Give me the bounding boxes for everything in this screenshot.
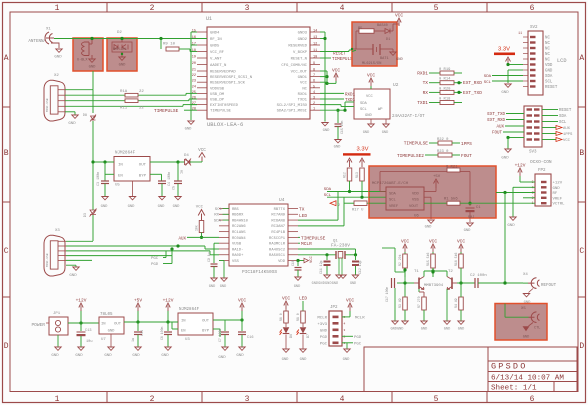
svg-text:3: 3 (245, 4, 250, 13)
svg-text:RB7TX: RB7TX (274, 208, 286, 212)
svg-text:R2 20k: R2 20k (398, 254, 402, 266)
svg-text:C17 100n: C17 100n (385, 287, 389, 302)
svg-text:TXD1: TXD1 (298, 99, 308, 103)
svg-text:GND: GND (108, 330, 116, 334)
svg-text:GND: GND (458, 328, 464, 332)
svg-text:TX: TX (299, 207, 305, 213)
svg-text:GND: GND (464, 229, 472, 233)
svg-text:BAT1: BAT1 (380, 57, 389, 61)
svg-text:VCC: VCC (238, 298, 246, 304)
svg-text:C11 12p: C11 12p (319, 261, 323, 274)
svg-text:T1: T1 (414, 270, 419, 274)
svg-text:D4: D4 (184, 154, 189, 158)
svg-text:GND: GND (320, 329, 328, 333)
svg-text:RC6AN8: RC6AN8 (271, 219, 285, 223)
svg-text:TIMEPULSE: TIMEPULSE (154, 108, 179, 114)
svg-text:RESET: RESET (333, 52, 346, 57)
svg-text:SCL: SCL (559, 121, 567, 125)
svg-text:EN: EN (181, 330, 186, 334)
svg-text:R3 49: R3 49 (398, 298, 402, 308)
svg-text:ANTENNA: ANTENNA (28, 40, 46, 44)
svg-text:AUX: AUX (178, 238, 186, 242)
svg-text:14: 14 (313, 30, 317, 34)
svg-text:RC1AN5: RC1AN5 (232, 231, 246, 235)
svg-text:RA5OSC1: RA5OSC1 (269, 254, 286, 258)
svg-text:1: 1 (55, 4, 60, 13)
svg-text:VCC: VCC (395, 13, 403, 19)
svg-text:R1 5k6: R1 5k6 (444, 197, 458, 202)
svg-text:BYP: BYP (139, 175, 147, 179)
svg-text:MINI-USB: MINI-USB (46, 253, 49, 267)
svg-text:VREF: VREF (389, 205, 399, 209)
svg-text:A: A (4, 54, 9, 63)
svg-text:NC: NC (302, 87, 307, 91)
svg-text:R1A: R1A (120, 90, 128, 94)
svg-text:SCL2/SPI_MISO: SCL2/SPI_MISO (277, 103, 308, 108)
svg-text:SV3: SV3 (529, 151, 537, 155)
svg-text:RX: RX (423, 90, 429, 96)
svg-text:RB6RX: RB6RX (232, 214, 244, 218)
svg-text:SDA: SDA (545, 75, 553, 79)
svg-text:BAS40: BAS40 (377, 24, 388, 28)
svg-text:U3: U3 (185, 338, 190, 342)
svg-text:GND: GND (523, 336, 529, 340)
svg-text:GND: GND (501, 91, 509, 95)
svg-text:VREF: VREF (553, 197, 563, 201)
svg-text:VCC: VCC (300, 82, 308, 86)
svg-text:5: 5 (313, 85, 315, 89)
svg-text:RXD1: RXD1 (417, 71, 428, 77)
svg-text:X1: X1 (46, 28, 51, 32)
svg-text:26: 26 (192, 97, 196, 101)
svg-text:OCXO-CON: OCXO-CON (530, 159, 552, 165)
svg-text:TIMEPULSE2: TIMEPULSE2 (397, 153, 424, 159)
svg-text:GND4: GND4 (210, 32, 220, 36)
svg-text:28: 28 (192, 108, 196, 112)
svg-text:V_ANT: V_ANT (210, 58, 222, 62)
svg-text:0 R14: 0 R14 (439, 78, 451, 82)
svg-text:EN: EN (118, 175, 123, 179)
svg-text:C6 100n: C6 100n (160, 327, 164, 340)
svg-text:VCTRL: VCTRL (553, 203, 566, 207)
svg-text:+12V: +12V (553, 182, 563, 186)
svg-text:25: 25 (192, 91, 196, 95)
svg-text:X5: X5 (521, 307, 526, 311)
svg-text:VOUT: VOUT (409, 205, 419, 209)
svg-text:GND: GND (365, 114, 373, 118)
svg-text:TX: TX (423, 80, 429, 86)
svg-text:U2: U2 (393, 82, 399, 88)
svg-text:SDA: SDA (324, 188, 332, 192)
svg-text:NC: NC (545, 59, 550, 63)
svg-text:C15 10n: C15 10n (340, 121, 344, 134)
svg-text:ML621S/DN: ML621S/DN (362, 61, 381, 66)
svg-text:R13: R13 (355, 172, 359, 178)
svg-text:NJM2864F: NJM2864F (179, 308, 200, 312)
svg-text:TIMEPULSE: TIMEPULSE (404, 141, 429, 147)
svg-text:C7 100n: C7 100n (218, 329, 222, 342)
svg-text:C10: C10 (291, 260, 295, 266)
svg-text:10u: 10u (86, 340, 92, 344)
svg-text:R6 0: R6 0 (279, 313, 283, 321)
svg-text:AUX: AUX (563, 127, 571, 131)
svg-text:MMBT3904: MMBT3904 (424, 284, 444, 288)
svg-text:78L05: 78L05 (100, 313, 113, 317)
svg-text:C5: C5 (173, 186, 177, 190)
svg-text:UBLOX-LEA-6: UBLOX-LEA-6 (207, 121, 243, 128)
svg-text:U4: U4 (279, 197, 285, 203)
svg-text:5: 5 (344, 316, 346, 319)
svg-text:GND: GND (158, 205, 166, 209)
svg-text:VCC: VCC (401, 239, 409, 245)
svg-text:LCD: LCD (557, 58, 567, 64)
svg-text:SDA2/SPI_MOSI: SDA2/SPI_MOSI (277, 109, 307, 114)
svg-text:22: 22 (139, 107, 144, 111)
svg-text:7: 7 (313, 74, 315, 78)
svg-text:PGC: PGC (354, 343, 362, 347)
svg-text:6: 6 (313, 80, 315, 84)
svg-text:V_BCKP: V_BCKP (293, 51, 308, 55)
svg-text:B: B (579, 149, 584, 158)
svg-text:GND: GND (220, 285, 226, 289)
svg-text:VSS: VSS (412, 199, 420, 203)
svg-text:RA3MCLR: RA3MCLR (269, 243, 286, 247)
svg-text:0 R21: 0 R21 (446, 166, 458, 170)
svg-text:+5V: +5V (433, 175, 441, 179)
svg-text:VCC: VCC (457, 239, 465, 245)
svg-text:NJM2864F: NJM2864F (115, 152, 136, 156)
svg-text:3: 3 (344, 329, 346, 332)
svg-text:4: 4 (340, 395, 345, 404)
svg-text:VCC: VCC (198, 148, 206, 153)
svg-text:6: 6 (530, 4, 535, 13)
svg-text:+12V: +12V (515, 163, 526, 169)
svg-text:27: 27 (192, 102, 196, 106)
svg-text:+3V3: +3V3 (317, 323, 327, 327)
svg-text:USB_DM: USB_DM (210, 93, 225, 97)
svg-text:RA1D-: RA1D- (232, 248, 243, 252)
svg-text:1u: 1u (181, 170, 185, 174)
svg-text:SDA: SDA (214, 219, 222, 223)
svg-text:0 R20: 0 R20 (439, 87, 451, 91)
svg-text:6/13/14 10:07 AM: 6/13/14 10:07 AM (491, 374, 564, 382)
svg-text:GND: GND (545, 70, 553, 74)
svg-text:D3: D3 (84, 213, 88, 217)
svg-text:MCLR: MCLR (301, 241, 312, 247)
svg-text:C2 100n: C2 100n (470, 274, 487, 278)
svg-text:3: 3 (313, 97, 315, 101)
svg-text:GND: GND (75, 354, 83, 358)
svg-text:RC5CCP1: RC5CCP1 (269, 237, 286, 241)
svg-text:C: C (4, 247, 9, 256)
svg-text:NC: NC (545, 48, 550, 52)
svg-text:CTL: CTL (534, 327, 540, 331)
svg-text:2: 2 (344, 335, 346, 338)
svg-text:MINI-USB: MINI-USB (46, 98, 49, 112)
svg-text:C3 100n: C3 100n (97, 172, 101, 186)
svg-text:RF: RF (553, 192, 558, 196)
svg-text:T2: T2 (448, 270, 453, 274)
svg-text:GND: GND (132, 354, 140, 358)
svg-text:AUX: AUX (496, 126, 504, 130)
svg-text:GND: GND (51, 354, 59, 358)
svg-text:PIC18F14K50SS: PIC18F14K50SS (242, 269, 277, 275)
svg-text:RXD1: RXD1 (345, 93, 356, 97)
svg-text:GND: GND (185, 128, 193, 132)
svg-text:POWER: POWER (31, 322, 45, 328)
svg-text:13: 13 (313, 36, 317, 40)
svg-text:GND: GND (236, 354, 244, 358)
svg-text:GND5: GND5 (210, 45, 220, 49)
svg-text:VDDUSB: VDDUSB (210, 87, 225, 91)
svg-text:MCLR: MCLR (355, 317, 365, 321)
svg-text:C16: C16 (247, 336, 253, 340)
svg-text:1u: 1u (132, 338, 136, 342)
svg-text:IN: IN (101, 323, 106, 327)
svg-text:RC2AN6: RC2AN6 (232, 225, 246, 229)
svg-text:VCC_OUT: VCC_OUT (291, 71, 308, 75)
svg-text:RB5: RB5 (232, 208, 240, 212)
svg-text:SCL: SCL (360, 108, 368, 112)
svg-text:RESET: RESET (545, 86, 558, 90)
svg-text:VCC: VCC (367, 73, 375, 79)
svg-text:RC3AN7: RC3AN7 (271, 225, 285, 229)
svg-text:20: 20 (192, 62, 196, 66)
svg-text:9: 9 (313, 62, 315, 66)
svg-text:USB_DP: USB_DP (210, 99, 225, 103)
svg-text:VCC: VCC (282, 296, 290, 302)
svg-text:15: 15 (192, 30, 196, 34)
svg-text:4: 4 (340, 4, 345, 13)
svg-text:VSS: VSS (232, 260, 240, 264)
svg-text:SCL: SCL (324, 194, 332, 198)
svg-text:RC7AN9: RC7AN9 (271, 214, 285, 218)
svg-text:+12V: +12V (163, 298, 174, 304)
svg-text:GNDGND: GNDGND (391, 328, 404, 332)
svg-text:U7: U7 (101, 338, 106, 342)
svg-text:JP2: JP2 (330, 306, 338, 310)
svg-text:50J: 50J (468, 216, 474, 220)
svg-text:X3: X3 (55, 229, 60, 233)
svg-text:GND: GND (173, 205, 181, 209)
svg-text:VCC: VCC (346, 298, 354, 304)
svg-text:RESERVEDSPI_SCK: RESERVEDSPI_SCK (210, 82, 246, 86)
svg-text:RA4OSC2: RA4OSC2 (269, 248, 286, 252)
svg-text:OUT: OUT (202, 320, 210, 324)
svg-text:VCC: VCC (429, 239, 437, 245)
svg-text:GND: GND (323, 129, 331, 133)
svg-text:D: D (4, 342, 9, 351)
svg-text:PGC: PGC (320, 342, 328, 346)
svg-text:VCC: VCC (332, 68, 340, 74)
svg-text:R23 0: R23 0 (437, 150, 449, 154)
svg-text:GND2: GND2 (298, 38, 308, 42)
svg-text:BYP: BYP (202, 330, 210, 334)
svg-text:R17 U: R17 U (352, 209, 364, 213)
svg-text:GND1: GND1 (298, 76, 308, 80)
svg-text:RC0AN4: RC0AN4 (232, 237, 246, 241)
svg-text:LED: LED (299, 213, 307, 219)
svg-text:24AA32AT-I/OT: 24AA32AT-I/OT (392, 114, 425, 119)
svg-text:4: 4 (344, 322, 346, 325)
svg-text:EXT_RXD: EXT_RXD (463, 80, 482, 86)
svg-text:VDD: VDD (412, 193, 420, 197)
svg-text:1: 1 (313, 108, 315, 112)
svg-text:VCC_RF: VCC_RF (210, 51, 225, 55)
svg-text:PGC: PGC (151, 257, 159, 261)
svg-text:GND: GND (421, 328, 427, 332)
svg-text:R8 0: R8 0 (296, 313, 300, 321)
svg-text:X2: X2 (54, 74, 59, 78)
svg-text:10k: 10k (195, 225, 199, 231)
svg-text:R12: R12 (343, 172, 347, 178)
svg-text:VCC: VCC (366, 95, 374, 99)
svg-text:GND: GND (128, 205, 136, 209)
svg-text:GND: GND (444, 328, 450, 332)
svg-text:GND: GND (89, 66, 97, 70)
svg-text:1: 1 (55, 395, 60, 404)
svg-text:D6: D6 (290, 334, 294, 338)
svg-text:6: 6 (530, 395, 535, 404)
svg-text:FOUT: FOUT (461, 153, 472, 159)
svg-text:SDA: SDA (360, 102, 368, 106)
svg-text:EXTINT0SPEED: EXTINT0SPEED (210, 104, 239, 108)
svg-text:R15 5k6: R15 5k6 (426, 253, 430, 266)
svg-text:U6: U6 (414, 215, 419, 219)
svg-text:EXT_TXD: EXT_TXD (487, 113, 505, 117)
svg-text:LED: LED (299, 296, 307, 302)
svg-text:+5V: +5V (134, 298, 142, 304)
svg-text:GND: GND (54, 56, 62, 60)
svg-text:SCL: SCL (545, 81, 553, 85)
svg-text:SDA: SDA (389, 193, 397, 197)
svg-text:GND: GND (382, 131, 388, 135)
svg-text:R4 49: R4 49 (454, 298, 458, 308)
svg-text:GPSDO: GPSDO (491, 362, 528, 372)
svg-text:0 R18: 0 R18 (439, 98, 451, 102)
svg-text:FA-238V: FA-238V (331, 243, 350, 249)
svg-text:PGD: PGD (151, 263, 159, 267)
svg-text:FOUT: FOUT (492, 132, 503, 136)
svg-text:TXD1: TXD1 (417, 100, 428, 106)
svg-text:22: 22 (139, 90, 144, 94)
svg-text:RESERVEDSPI_SCSI_N: RESERVEDSPI_SCSI_N (210, 76, 253, 80)
svg-text:RESET: RESET (559, 109, 572, 113)
svg-text:GND: GND (119, 64, 127, 68)
svg-text:R9 10: R9 10 (163, 43, 176, 47)
svg-text:22: 22 (192, 74, 196, 78)
svg-text:EXT_TXD: EXT_TXD (463, 90, 482, 96)
svg-text:4: 4 (313, 91, 315, 95)
svg-text:NC: NC (545, 37, 550, 41)
svg-text:GND: GND (396, 58, 404, 62)
svg-text:VCC: VCC (310, 255, 314, 263)
svg-text:+12V: +12V (76, 298, 87, 304)
svg-text:SV2: SV2 (530, 26, 538, 30)
svg-text:GND: GND (507, 224, 515, 228)
svg-text:RESERVED: RESERVED (288, 45, 307, 49)
svg-text:8: 8 (313, 69, 315, 73)
svg-text:GND: GND (209, 285, 215, 289)
svg-text:0 R19: 0 R19 (439, 68, 451, 72)
svg-text:GND: GND (68, 122, 76, 126)
svg-text:AADET_N: AADET_N (210, 64, 227, 68)
svg-text:OUT: OUT (114, 323, 122, 327)
svg-text:17: 17 (192, 43, 196, 47)
svg-text:1PPS: 1PPS (461, 141, 472, 147)
svg-text:RB4AN10: RB4AN10 (232, 219, 249, 223)
svg-text:GND: GND (101, 205, 109, 209)
svg-text:PGD: PGD (354, 336, 362, 340)
svg-text:GNDGNDGNDGND: GNDGNDGNDGND (312, 282, 339, 286)
svg-text:2: 2 (150, 395, 155, 404)
svg-text:12: 12 (313, 43, 317, 47)
svg-text:GND: GND (334, 146, 342, 150)
svg-text:R22 0: R22 0 (437, 138, 449, 142)
svg-text:5: 5 (434, 4, 439, 13)
svg-text:RESERVEDPAD: RESERVEDPAD (210, 71, 236, 75)
svg-text:OUT: OUT (139, 164, 147, 168)
svg-text:R16 5k6: R16 5k6 (454, 253, 458, 266)
svg-text:D2: D2 (117, 31, 122, 35)
svg-text:SDA: SDA (559, 115, 567, 119)
svg-text:SCL: SCL (215, 208, 223, 212)
svg-text:11: 11 (518, 31, 522, 35)
svg-text:D: D (579, 342, 584, 351)
svg-text:18: 18 (192, 49, 196, 53)
svg-text:2: 2 (313, 102, 315, 106)
svg-text:NC: NC (545, 42, 550, 46)
svg-text:R7 270: R7 270 (417, 296, 421, 308)
svg-text:24: 24 (192, 85, 196, 89)
svg-text:MCLR: MCLR (317, 317, 327, 321)
svg-text:NC: NC (545, 53, 550, 57)
svg-text:RC4P1B: RC4P1B (271, 231, 285, 235)
svg-text:16: 16 (192, 36, 196, 40)
svg-text:TIMEPULSE: TIMEPULSE (210, 110, 232, 114)
svg-text:C12 12p: C12 12p (358, 261, 362, 274)
svg-text:REFOUT: REFOUT (541, 284, 557, 288)
svg-text:C1: C1 (476, 206, 481, 210)
svg-text:D8: D8 (83, 114, 87, 118)
svg-text:RXD1: RXD1 (298, 93, 308, 97)
svg-text:3.3V: 3.3V (357, 147, 369, 153)
svg-text:RX: RX (214, 214, 219, 218)
svg-text:19: 19 (192, 56, 196, 60)
svg-text:1: 1 (344, 342, 346, 345)
svg-text:TIMEPULSE: TIMEPULSE (301, 235, 326, 241)
svg-text:GND: GND (282, 358, 290, 362)
svg-text:C13: C13 (85, 329, 91, 333)
svg-text:GND: GND (104, 354, 112, 358)
svg-text:SCL: SCL (484, 81, 492, 85)
svg-text:U5: U5 (115, 184, 120, 188)
svg-text:21: 21 (192, 69, 196, 73)
svg-text:R5: R5 (358, 27, 362, 31)
svg-text:R11: R11 (120, 107, 128, 111)
svg-text:VCC: VCC (196, 206, 204, 210)
svg-text:2: 2 (338, 204, 340, 208)
svg-text:RA0D+: RA0D+ (232, 254, 244, 258)
svg-text:Sheet: 1/1: Sheet: 1/1 (491, 384, 537, 392)
svg-text:WP: WP (378, 108, 383, 112)
svg-text:C: C (579, 247, 584, 256)
svg-text:GND: GND (294, 285, 300, 289)
svg-text:10: 10 (313, 56, 317, 60)
svg-text:GND: GND (501, 157, 509, 161)
svg-text:RESET_N: RESET_N (291, 58, 308, 62)
svg-text:GND: GND (343, 358, 351, 362)
